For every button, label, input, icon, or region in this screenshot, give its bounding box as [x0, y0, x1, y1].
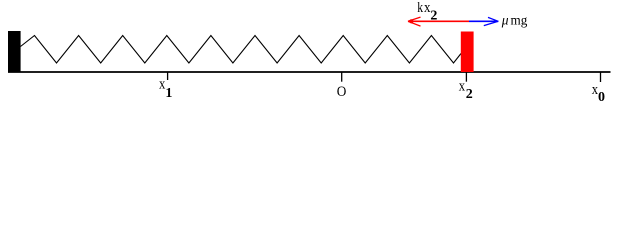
svg-text:1: 1	[165, 86, 172, 101]
svg-text:k: k	[417, 0, 423, 16]
svg-text:O: O	[337, 84, 347, 100]
svg-text:0: 0	[598, 90, 605, 105]
svg-text:2: 2	[466, 87, 473, 102]
svg-text:2: 2	[430, 8, 437, 23]
svg-text:mg: mg	[511, 13, 528, 28]
svg-text:x: x	[459, 78, 466, 94]
svg-text:μ: μ	[501, 13, 509, 28]
